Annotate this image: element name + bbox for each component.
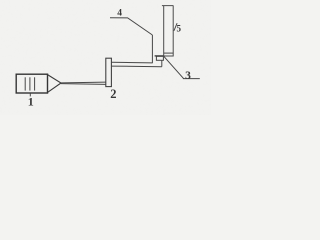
svg-text:2: 2	[110, 87, 116, 101]
plunger line c inside 1	[34, 77, 36, 90]
leader line for 4 (underline, diagonal, down to wire)	[110, 18, 152, 35]
syringe body 1 (rectangle)	[16, 74, 47, 93]
pipe top wall (2 to junction)	[111, 61, 152, 64]
svg-text:5: 5	[176, 23, 181, 33]
vertical tube 5 (tall rectangle)	[162, 6, 174, 56]
pipe elbow riser wall	[161, 60, 163, 66]
plunger line a inside 1	[24, 77, 26, 90]
tube top wall (1 to 2)	[61, 81, 106, 84]
leader line for 1	[29, 93, 31, 96]
pipe bottom wall (2 to junction)	[111, 65, 161, 68]
wire 4 (vertical line into junction)	[151, 35, 153, 63]
plunger line b inside 1	[29, 77, 31, 90]
svg-text:3: 3	[185, 70, 191, 82]
leader line for 3	[164, 57, 184, 79]
riser tube 2 (tall thin rectangle)	[106, 58, 112, 86]
bottom extension line of tube 5	[155, 55, 164, 57]
outlet nub box under tube 5	[156, 56, 163, 60]
svg-text:4: 4	[117, 9, 122, 19]
svg-text:1: 1	[28, 95, 34, 109]
paper grain	[0, 0, 211, 115]
inner bottom line of tube 5	[164, 52, 174, 54]
paper background	[0, 0, 211, 115]
tube bottom wall (1 to 2)	[61, 83, 106, 86]
leader slash for 5	[174, 23, 177, 31]
underline of 3	[183, 78, 200, 80]
nozzle cone of 1 (triangle)	[48, 75, 62, 93]
